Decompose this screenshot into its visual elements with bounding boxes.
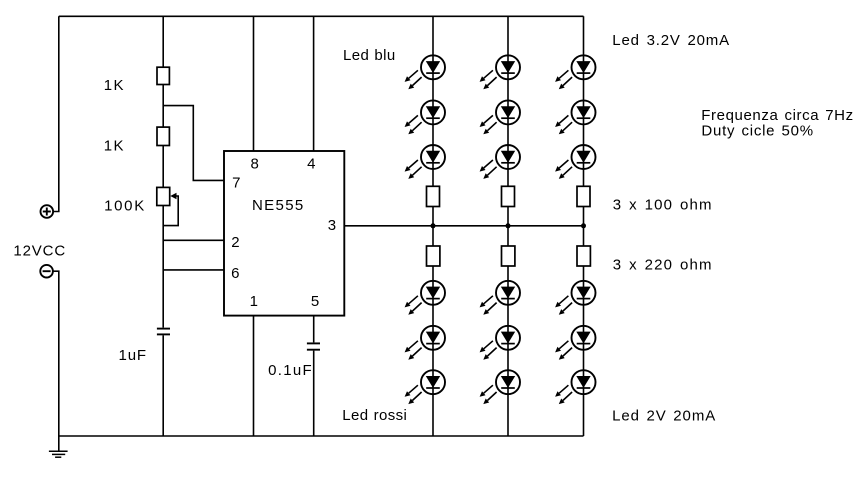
red LED column 3 middle (555, 326, 595, 360)
svg-text:12VCC: 12VCC (13, 242, 66, 259)
red LED column 2 middle (480, 326, 520, 360)
svg-text:NE555: NE555 (252, 197, 305, 214)
svg-text:Led 2V 20mA: Led 2V 20mA (612, 407, 716, 424)
wire pin 6 branch (163, 269, 224, 271)
wire 1uF capacitor to bottom rail (162, 335, 164, 436)
red LED column 1 middle (405, 326, 445, 360)
resistor 100 ohm column 1 (427, 186, 440, 206)
svg-text:0.1uF: 0.1uF (268, 362, 313, 379)
node junction column 3 / pin 3 (581, 223, 586, 228)
red LED column 2 top (480, 281, 520, 315)
svg-text:1K: 1K (104, 137, 125, 154)
wire pin 5 to 0.1uF capacitor (313, 316, 315, 343)
wire 0.1uF capacitor to bottom rail (313, 351, 315, 436)
svg-text:5: 5 (311, 293, 319, 310)
wire potentiometer to 1uF capacitor (162, 206, 164, 328)
wire ground stem (58, 436, 60, 451)
resistor 220 ohm column 2 (502, 246, 515, 266)
svg-text:3: 3 (328, 217, 336, 234)
wire resistor chain x=163 top rail to R1 (162, 16, 164, 67)
blue LED column 2 bottom (480, 145, 520, 179)
resistor 100 ohm column 2 (502, 186, 515, 206)
wire LED column 2 (507, 16, 509, 436)
wire junction between R1 and R2 to pin 7 (163, 106, 224, 181)
wire pin 2 branch (163, 239, 224, 241)
wire R1 to R2 (162, 85, 164, 128)
svg-text:Led 3.2V 20mA: Led 3.2V 20mA (612, 32, 730, 49)
blue LED column 3 bottom (555, 145, 595, 179)
red LED column 2 bottom (480, 370, 520, 404)
blue LED column 2 top (480, 55, 520, 89)
wire LED column 3 (583, 16, 585, 436)
svg-text:Led rossi: Led rossi (342, 407, 407, 424)
red LED column 1 bottom (405, 370, 445, 404)
svg-text:8: 8 (251, 156, 259, 173)
IC NE555 (224, 151, 344, 316)
resistor 220 ohm column 1 (427, 246, 440, 266)
battery - terminal (40, 265, 53, 278)
blue LED column 1 bottom (405, 145, 445, 179)
blue LED column 1 middle (405, 100, 445, 134)
node junction column 2 / pin 3 (506, 223, 511, 228)
capacitor 0.1uF (307, 343, 320, 349)
svg-text:2: 2 (231, 234, 239, 251)
resistor 220 ohm column 3 (577, 246, 590, 266)
resistor 1K (top) (157, 67, 169, 84)
svg-text:Led blu: Led blu (343, 47, 396, 64)
svg-text:3 x 220 ohm: 3 x 220 ohm (613, 257, 713, 274)
svg-text:Frequenza circa 7Hz: Frequenza circa 7Hz (701, 107, 853, 124)
wire left vertical from - terminal to bottom rail (53, 271, 59, 436)
wire bottom ground rail (59, 435, 584, 437)
svg-text:3 x 100 ohm: 3 x 100 ohm (613, 197, 713, 214)
svg-text:Duty cicle 50%: Duty cicle 50% (701, 123, 813, 140)
svg-text:100K: 100K (104, 197, 146, 214)
wire R2 to potentiometer (162, 146, 164, 188)
wire pin 1 to bottom rail (253, 316, 255, 436)
wire pin 4 to top rail (313, 16, 315, 151)
wire left vertical from + terminal to top rail (53, 16, 59, 211)
red LED column 1 top (405, 281, 445, 315)
wire pin 3 output to LED columns (344, 225, 583, 227)
svg-text:4: 4 (307, 156, 315, 173)
blue LED column 1 top (405, 55, 445, 89)
ground (49, 451, 68, 457)
svg-text:1: 1 (250, 293, 258, 310)
node junction column 1 / pin 3 (431, 223, 436, 228)
red LED column 3 top (555, 281, 595, 315)
blue LED column 2 middle (480, 100, 520, 134)
svg-text:1K: 1K (104, 77, 125, 94)
wire top supply rail (59, 15, 584, 17)
battery + terminal (41, 205, 54, 218)
svg-text:6: 6 (231, 265, 239, 282)
blue LED column 3 top (555, 55, 595, 89)
capacitor 1uF (157, 329, 170, 335)
resistor 1K (second) (157, 127, 169, 145)
potentiometer 100K (157, 187, 178, 225)
wire pin 8 to top rail (253, 16, 255, 151)
svg-text:1uF: 1uF (119, 347, 147, 364)
wire LED column 1 (432, 16, 434, 436)
blue LED column 3 middle (555, 100, 595, 134)
red LED column 3 bottom (555, 370, 595, 404)
resistor 100 ohm column 3 (577, 186, 590, 206)
svg-text:7: 7 (232, 175, 240, 192)
